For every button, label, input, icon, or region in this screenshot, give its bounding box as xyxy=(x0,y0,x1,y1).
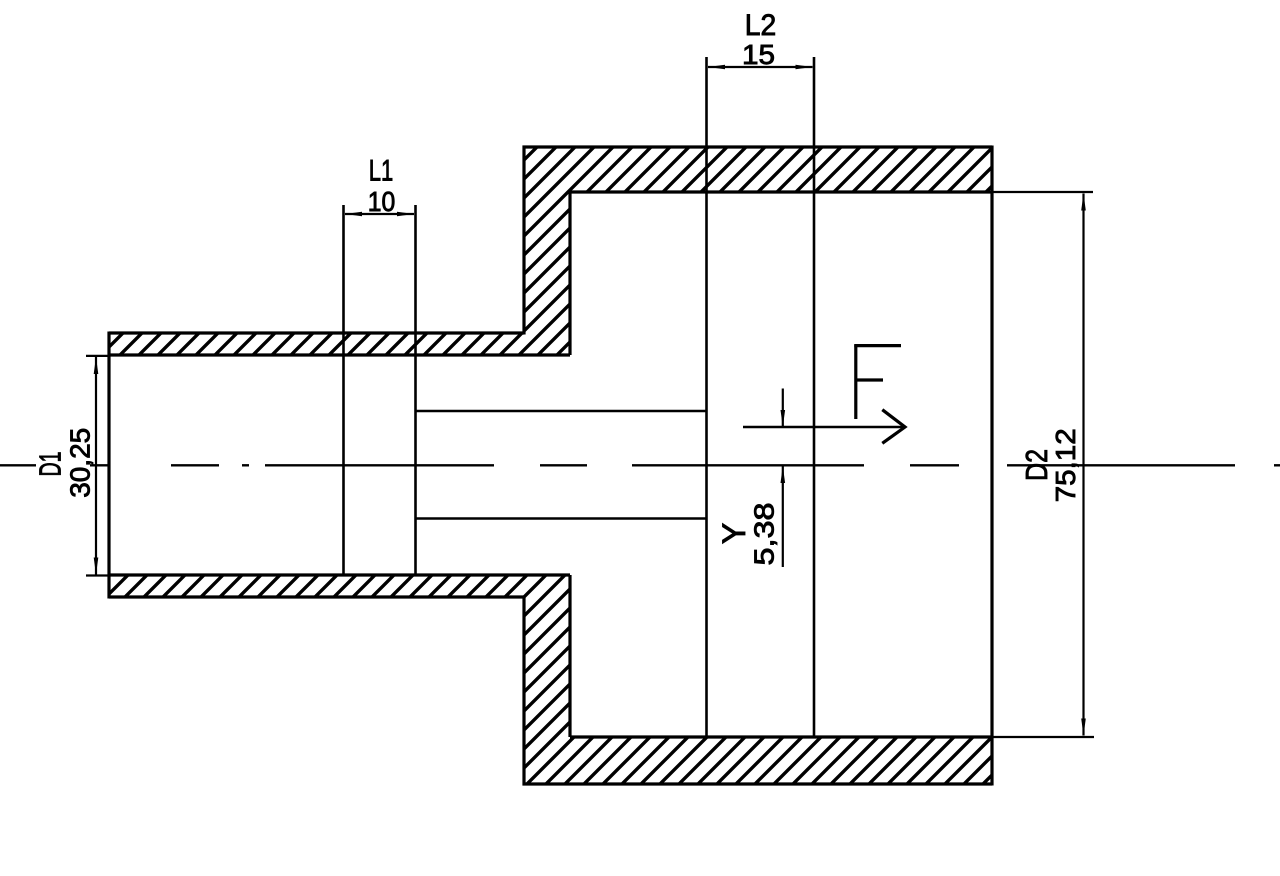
svg-text:L1: L1 xyxy=(369,155,394,188)
outline: small tube left end face xyxy=(107,332,110,599)
centerline dash segments xyxy=(0,464,1280,466)
svg-text:Y: Y xyxy=(716,523,752,544)
svg-text:75,12: 75,12 xyxy=(1050,428,1081,502)
outline: small tube bottom wall inner surface xyxy=(109,573,570,576)
outline: big cylinder top wall inner surface xyxy=(570,190,992,193)
outline: big cylinder left wall inner edge lower xyxy=(568,575,571,737)
outline: big cylinder bottom wall inner surface xyxy=(570,735,992,738)
force arrow head open xyxy=(882,410,905,444)
outline: big cylinder right end face xyxy=(990,146,993,786)
svg-text:5,38: 5,38 xyxy=(749,503,780,566)
dimension L1 line xyxy=(345,213,414,215)
piston L1 left edge with extension line above xyxy=(342,205,345,575)
outline: big cylinder left wall outer edge lower xyxy=(522,596,525,786)
dimension L2 line xyxy=(708,66,813,68)
force arrow line xyxy=(743,426,904,429)
dimension D2 arrow up xyxy=(1081,194,1086,211)
dimension D1 extension line bottom xyxy=(86,574,109,576)
dimension L1 arrow left xyxy=(345,212,362,217)
svg-text:30,25: 30,25 xyxy=(64,428,95,498)
dimension L1 arrow right xyxy=(397,212,414,217)
svg-text:10: 10 xyxy=(368,186,396,217)
hatched wall: small tube bottom wall xyxy=(109,575,524,597)
outline: small tube top wall outer surface xyxy=(109,331,524,334)
dimension D2 extension line bottom xyxy=(992,736,1094,738)
dimension D2 line xyxy=(1082,194,1084,736)
dimension Y arrow down xyxy=(781,410,786,427)
hatched wall: big cylinder top wall xyxy=(570,147,992,192)
dimension D1 line xyxy=(95,357,97,575)
outline: big cylinder top wall outer surface xyxy=(523,145,993,148)
force F letter top bar xyxy=(854,344,901,347)
piston L2 right edge with extension line above xyxy=(813,57,816,737)
dimension D2 extension line top xyxy=(992,191,1093,193)
outline: small tube top wall inner surface xyxy=(109,353,570,356)
dimension Y upper line xyxy=(782,389,784,428)
dimension Y arrow up xyxy=(781,466,786,483)
dimension L2 arrow left xyxy=(708,65,725,70)
outline: big cylinder left wall outer edge upper xyxy=(522,146,525,335)
outline: big cylinder left wall inner edge upper xyxy=(568,192,571,355)
dimension D1 arrow up xyxy=(94,357,99,374)
piston rod bottom line xyxy=(416,517,707,520)
piston L2 left edge with extension line above xyxy=(705,57,708,737)
svg-text:L2: L2 xyxy=(745,9,777,42)
dimension L2 arrow right xyxy=(796,65,813,70)
piston rod top line xyxy=(416,410,707,413)
svg-text:D1: D1 xyxy=(32,452,67,477)
force F letter middle bar xyxy=(856,378,883,381)
hatched wall: big cylinder left wall lower part xyxy=(524,575,570,784)
force F letter vertical stroke xyxy=(854,345,857,420)
hatched wall: big cylinder bottom wall xyxy=(570,737,992,784)
outline: small tube bottom wall outer surface xyxy=(109,595,524,598)
outline: big cylinder bottom wall outer surface xyxy=(523,782,993,785)
dimension D1 extension line top xyxy=(86,355,109,357)
dimension D2 arrow down xyxy=(1081,719,1086,736)
hatched wall: small tube top wall xyxy=(109,333,524,355)
svg-text:D2: D2 xyxy=(1019,449,1054,481)
dimension D1 arrow down xyxy=(94,558,99,575)
hatched wall: big cylinder left wall upper part xyxy=(524,147,570,355)
piston L1 right edge with extension line above xyxy=(414,205,417,575)
svg-text:15: 15 xyxy=(742,39,775,70)
dimension Y lower line xyxy=(782,466,784,567)
